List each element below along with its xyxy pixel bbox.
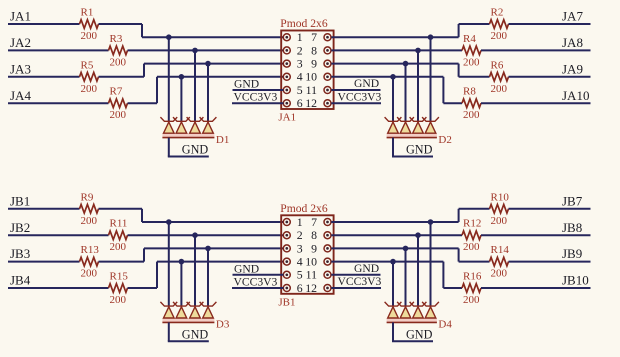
svg-text:GND: GND <box>182 143 209 157</box>
svg-text:GND: GND <box>406 327 433 341</box>
svg-text:R10: R10 <box>491 191 510 203</box>
svg-text:200: 200 <box>463 294 480 306</box>
svg-text:JA7: JA7 <box>562 9 583 24</box>
svg-text:R3: R3 <box>110 33 123 45</box>
svg-text:200: 200 <box>491 268 508 280</box>
svg-text:200: 200 <box>463 109 480 121</box>
svg-text:JB3: JB3 <box>10 246 30 261</box>
svg-text:7: 7 <box>311 215 317 229</box>
svg-text:200: 200 <box>81 83 98 95</box>
svg-text:11: 11 <box>306 83 317 97</box>
svg-text:R14: R14 <box>491 244 510 256</box>
svg-text:R16: R16 <box>463 271 482 283</box>
svg-text:200: 200 <box>110 109 127 121</box>
svg-text:JA3: JA3 <box>10 61 31 76</box>
svg-text:JB8: JB8 <box>562 220 582 235</box>
svg-text:2: 2 <box>297 228 303 242</box>
svg-text:200: 200 <box>110 56 127 68</box>
svg-text:JB9: JB9 <box>562 246 582 261</box>
svg-text:Pmod 2x6: Pmod 2x6 <box>280 202 328 215</box>
svg-text:JB4: JB4 <box>10 273 31 288</box>
svg-text:R8: R8 <box>463 86 476 98</box>
svg-text:GND: GND <box>406 143 433 157</box>
svg-text:JA4: JA4 <box>10 88 31 103</box>
svg-text:R4: R4 <box>463 33 476 45</box>
svg-text:JB2: JB2 <box>10 220 30 235</box>
svg-text:R2: R2 <box>491 7 504 19</box>
svg-text:200: 200 <box>491 30 508 42</box>
svg-text:200: 200 <box>491 215 508 227</box>
svg-text:VCC3V3: VCC3V3 <box>338 275 382 288</box>
svg-text:200: 200 <box>110 294 127 306</box>
svg-text:JA10: JA10 <box>562 88 589 103</box>
svg-text:5: 5 <box>297 83 303 97</box>
svg-text:GND: GND <box>234 262 259 275</box>
svg-text:200: 200 <box>81 215 98 227</box>
svg-text:D3: D3 <box>216 319 230 331</box>
svg-text:GND: GND <box>182 327 209 341</box>
svg-text:R9: R9 <box>81 191 94 203</box>
svg-text:1: 1 <box>297 30 303 44</box>
svg-text:8: 8 <box>311 43 317 57</box>
svg-text:GND: GND <box>354 77 379 90</box>
svg-text:VCC3V3: VCC3V3 <box>234 276 278 289</box>
svg-text:200: 200 <box>110 241 127 253</box>
svg-text:GND: GND <box>354 262 379 275</box>
svg-text:D1: D1 <box>216 134 229 146</box>
svg-text:VCC3V3: VCC3V3 <box>338 90 382 103</box>
svg-text:200: 200 <box>463 56 480 68</box>
svg-text:5: 5 <box>297 268 303 282</box>
svg-text:R12: R12 <box>463 218 481 230</box>
svg-text:200: 200 <box>81 30 98 42</box>
svg-text:10: 10 <box>305 70 317 84</box>
svg-text:4: 4 <box>297 70 303 84</box>
svg-text:D4: D4 <box>438 319 452 331</box>
svg-text:3: 3 <box>297 241 303 255</box>
svg-text:4: 4 <box>297 255 303 269</box>
svg-text:JB10: JB10 <box>562 273 589 288</box>
svg-text:R6: R6 <box>491 59 504 71</box>
svg-text:JA1: JA1 <box>10 9 31 24</box>
svg-text:JB1: JB1 <box>10 193 30 208</box>
svg-text:6: 6 <box>297 96 303 110</box>
svg-text:2: 2 <box>297 43 303 57</box>
svg-text:9: 9 <box>311 57 317 71</box>
svg-text:9: 9 <box>311 241 317 255</box>
svg-text:3: 3 <box>297 57 303 71</box>
svg-text:8: 8 <box>311 228 317 242</box>
svg-text:12: 12 <box>305 96 317 110</box>
svg-text:200: 200 <box>81 268 98 280</box>
svg-text:6: 6 <box>297 281 303 295</box>
svg-text:R5: R5 <box>81 59 94 71</box>
svg-text:GND: GND <box>234 78 259 91</box>
svg-text:11: 11 <box>306 268 317 282</box>
svg-text:200: 200 <box>491 83 508 95</box>
svg-text:VCC3V3: VCC3V3 <box>234 91 278 104</box>
svg-text:7: 7 <box>311 30 317 44</box>
svg-text:R15: R15 <box>110 271 129 283</box>
svg-text:R13: R13 <box>81 244 100 256</box>
svg-text:D2: D2 <box>438 134 451 146</box>
svg-text:JA2: JA2 <box>10 35 31 50</box>
svg-text:JA8: JA8 <box>562 35 583 50</box>
svg-text:JA9: JA9 <box>562 61 583 76</box>
svg-text:1: 1 <box>297 215 303 229</box>
svg-text:JB7: JB7 <box>562 193 583 208</box>
svg-text:10: 10 <box>305 255 317 269</box>
svg-text:R11: R11 <box>110 218 128 230</box>
svg-text:12: 12 <box>305 281 317 295</box>
svg-text:200: 200 <box>463 241 480 253</box>
svg-text:Pmod 2x6: Pmod 2x6 <box>280 17 328 30</box>
svg-text:JB1: JB1 <box>278 296 295 308</box>
svg-text:R7: R7 <box>110 86 123 98</box>
svg-text:JA1: JA1 <box>278 112 296 124</box>
svg-text:R1: R1 <box>81 7 94 19</box>
